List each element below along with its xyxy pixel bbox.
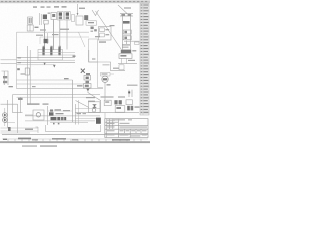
bottom line 1 <box>25 115 100 117</box>
E text right <box>128 60 135 61</box>
right enclosure box <box>89 39 98 62</box>
corner joint lines <box>36 127 39 133</box>
pump box top <box>101 73 111 77</box>
E dark bar <box>121 50 131 54</box>
relay block R1 <box>44 39 49 43</box>
drain tick 2 <box>53 65 56 68</box>
pump unit left circle 1 <box>3 113 8 118</box>
left small horiz line <box>5 122 15 124</box>
label 24V <box>60 29 69 30</box>
line mid bottom <box>75 107 100 109</box>
label row 5.1 <box>54 6 59 7</box>
right box join <box>98 62 103 88</box>
vertical feed wire with arrow <box>77 4 79 15</box>
sub box 1 <box>100 28 105 32</box>
cylinder cap dashes <box>121 14 131 15</box>
E outline box <box>119 54 132 59</box>
bottom left lines y131 <box>1 130 39 132</box>
bus H1 <box>17 79 73 81</box>
E box inner dash <box>120 55 126 57</box>
pump box text <box>102 73 108 74</box>
long leader diagonal <box>96 11 122 49</box>
wire down from B1 <box>53 20 55 51</box>
butterfly valve box <box>88 102 100 113</box>
wire down from V3 <box>66 20 68 50</box>
label 4.1 <box>107 84 111 85</box>
wire below right cluster <box>104 113 106 119</box>
title block shading and text <box>107 119 147 136</box>
bottom line 2 <box>25 120 95 122</box>
left bottom vertical 4 <box>20 97 22 112</box>
left device marks row2 <box>3 81 7 83</box>
label 1.1 <box>33 6 37 7</box>
label right of K1 <box>48 13 51 14</box>
bottom line 0 <box>48 110 72 112</box>
spool S2 cap <box>50 46 52 48</box>
label 2.1 on H1 <box>64 78 69 79</box>
label 5.4 <box>9 86 13 87</box>
target box of leader <box>99 27 112 41</box>
E cluster label top <box>123 44 131 45</box>
stack drop wire <box>87 91 89 93</box>
E drop wire 1 <box>121 58 123 63</box>
right cluster left edge <box>100 100 102 113</box>
label left of stack <box>77 85 83 86</box>
inner enclosure left edge <box>39 37 41 44</box>
bus H4 <box>13 94 101 96</box>
vertical wire x78 <box>77 100 79 125</box>
spool S2 <box>50 47 52 55</box>
leader V mark <box>92 10 99 16</box>
wire below cylinder <box>126 41 128 45</box>
parts list table frame <box>140 4 149 116</box>
cylinder port box 1 <box>123 30 131 34</box>
valve K1 dark element <box>43 15 47 20</box>
spool S1 cap <box>43 46 45 48</box>
plus mark <box>17 68 20 70</box>
label mid bottom b <box>83 113 87 114</box>
label G1 <box>88 22 94 23</box>
label 1.2 <box>41 6 45 7</box>
pump wire right <box>110 73 114 75</box>
manifold box C1 <box>76 16 83 25</box>
vertical wire pair 1 <box>26 46 28 104</box>
small comp right mid <box>128 90 132 97</box>
left bottom marks <box>18 98 23 100</box>
vertical right of gauge <box>47 106 49 125</box>
solenoid valve Y1 body <box>28 17 33 24</box>
label VG row <box>27 103 40 104</box>
bottom labels row b <box>63 110 70 111</box>
sub box text <box>105 29 109 30</box>
small fitting group <box>72 15 75 22</box>
top ruler strip band <box>0 0 150 2</box>
valve K1 sub box <box>44 20 48 24</box>
bank bus 2 <box>17 59 76 61</box>
pump unit left circle 2 <box>3 118 8 123</box>
X valve mark mid <box>81 69 85 73</box>
pressure switch box B1 <box>51 13 57 20</box>
label row2 b <box>36 35 43 36</box>
label mid right <box>92 58 95 59</box>
parts list text dashes <box>141 4 149 112</box>
right cluster bus <box>101 112 140 114</box>
bottom line 3 <box>50 121 88 123</box>
arrow tip <box>77 13 79 16</box>
label VG row 2 <box>43 103 49 104</box>
dark blob above row <box>50 110 53 112</box>
pump unit dot 2 <box>4 119 6 121</box>
label row2 c <box>52 34 59 35</box>
label left of cylinder <box>110 25 115 26</box>
valve V3 spool <box>66 12 69 19</box>
big enclosure left edge <box>16 32 18 88</box>
pump motor circle <box>102 76 108 82</box>
fitting marks right <box>135 42 140 44</box>
E bar side text <box>132 50 136 51</box>
wire x47.5 down <box>47 33 49 44</box>
spool S3 cap <box>59 46 61 48</box>
gauge circle <box>36 113 40 117</box>
wire D right <box>124 40 140 42</box>
label small on H <box>32 86 36 87</box>
wire down from V2 <box>59 20 61 48</box>
label on right bus <box>113 68 119 69</box>
top ruler speckles <box>1 1 147 2</box>
label right area <box>127 85 138 86</box>
bottom gray band <box>0 141 150 143</box>
right cluster box group <box>104 100 139 112</box>
inner enclosure top edge <box>40 36 89 38</box>
valve V2 frame <box>58 12 64 21</box>
butterfly circle <box>92 108 96 112</box>
left bottom vertical 1 <box>7 100 9 128</box>
label 24 <box>35 27 39 28</box>
port box 2 mark <box>124 37 127 39</box>
right bus corner wire <box>89 50 125 71</box>
drop wire x72 <box>72 80 74 122</box>
bus H2 <box>17 83 84 85</box>
bottom left lines y133 <box>1 132 31 134</box>
dark X box <box>96 118 101 124</box>
pressure switch B1 mark <box>52 14 55 17</box>
solenoid valve Y1 pins <box>29 18 32 23</box>
dark block C2 <box>84 15 88 20</box>
label b <box>18 62 21 63</box>
sub box text 2 <box>105 34 109 35</box>
left device stem <box>3 71 5 85</box>
bank bus 3 <box>17 62 76 64</box>
labels above bottom-right cluster 2 <box>118 96 125 97</box>
title block <box>105 119 148 138</box>
valve V3 frame <box>65 12 71 21</box>
line mid bottom 2 <box>75 117 96 119</box>
bus H3 <box>17 88 104 90</box>
bank line 2 <box>38 54 75 56</box>
butterfly valve marks <box>92 104 97 107</box>
E bus wire <box>118 63 137 65</box>
sub box 2 <box>100 33 105 37</box>
cylinder port box 2 <box>123 36 131 40</box>
left device marks row1 <box>3 76 7 78</box>
label above cylinder <box>124 7 131 8</box>
left pump column wire <box>4 108 6 126</box>
label bottom left of F <box>21 73 26 74</box>
bus H5 <box>17 96 96 98</box>
port box 1 mark <box>124 31 127 33</box>
cylinder walls <box>122 16 130 49</box>
dark block left of row <box>49 112 54 115</box>
spool S3 <box>58 47 60 55</box>
bank bus 1 <box>17 57 76 59</box>
labels above butterfly 2 <box>88 101 95 102</box>
drain tick 1 <box>44 63 46 66</box>
label under box <box>99 41 106 42</box>
pump unit dot 1 <box>4 114 6 116</box>
diagonal to butterfly <box>76 101 90 108</box>
bottom cluster lines to right <box>75 111 100 113</box>
label above C group <box>79 8 85 9</box>
vertical wire pair 2 <box>29 50 31 104</box>
bottom row small marks <box>53 123 59 125</box>
bus line a to left edge <box>1 59 17 61</box>
left bottom horiz 2 <box>13 112 23 114</box>
solenoid stack mid <box>84 73 92 91</box>
left comp on wire <box>25 68 29 75</box>
left bottom vertical 2 <box>12 95 14 113</box>
cylinder leader diagonal <box>118 5 127 14</box>
scan grain overlay <box>0 0 150 144</box>
gauge wire left <box>25 114 33 116</box>
label bottom left <box>25 129 33 130</box>
bottom ruler strip <box>2 139 148 141</box>
bank bus 4 <box>17 64 55 66</box>
stack diagonal <box>88 93 101 101</box>
marks bottom far left <box>8 127 11 131</box>
bottom left lines y128 <box>1 127 39 129</box>
valve K1 side lines <box>40 13 42 25</box>
E small box bottom <box>119 65 124 70</box>
big enclosure top edge <box>17 31 90 33</box>
cylinder piston <box>123 21 130 24</box>
gauge box <box>33 110 44 120</box>
valve V2 spool <box>59 12 62 19</box>
drop wire x75 <box>75 104 77 125</box>
main valve bank frame <box>38 50 63 61</box>
bottom footer text 1 <box>22 145 37 147</box>
bottom-right big box <box>46 125 101 132</box>
bottom frame line <box>2 134 148 136</box>
wire from Y1 down <box>29 24 31 31</box>
bottom footer text 2 <box>40 145 57 147</box>
mid cluster above big box <box>91 27 97 32</box>
relay box 24V <box>27 25 33 31</box>
wire from K1 down <box>44 24 46 49</box>
label row 3.1 <box>62 6 67 7</box>
pump mark <box>103 78 107 80</box>
diagonal into R1 <box>79 32 86 47</box>
bottom dark bar <box>51 117 67 120</box>
labels above butterfly <box>86 97 95 98</box>
bank line 1 <box>38 51 75 53</box>
box C3 with label <box>86 21 97 25</box>
left bottom horiz 1 <box>1 103 18 105</box>
bottom labels row c <box>56 113 64 114</box>
spool S1 <box>42 47 44 55</box>
bottom labels row a <box>55 109 62 110</box>
labels above bottom-right cluster <box>101 96 114 97</box>
label row2 a <box>40 29 46 30</box>
label a <box>18 57 21 58</box>
bus line b to left edge <box>1 63 17 65</box>
bottom ruler text marks <box>3 138 130 141</box>
short line right of corner <box>103 63 110 66</box>
cylinder cap lines <box>120 14 133 16</box>
label mid bottom a <box>77 113 82 114</box>
label near diag <box>95 36 100 37</box>
left bottom vertical 3 <box>17 104 19 133</box>
E drop wire 2 <box>126 58 128 63</box>
bus end marks <box>73 55 76 57</box>
pump drop wire <box>104 82 106 100</box>
left device top box <box>2 71 9 85</box>
parts list rows <box>140 6 149 113</box>
top ruler base line <box>0 2 150 4</box>
